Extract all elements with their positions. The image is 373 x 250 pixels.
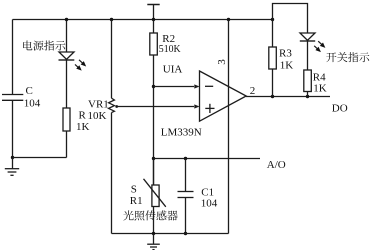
wire C1 bottom leg <box>185 198 187 234</box>
wire VR1 top leg <box>111 20 113 99</box>
node junction VR1 rail <box>110 18 113 21</box>
svg-text:2: 2 <box>250 85 256 97</box>
label power indicator <box>23 40 32 50</box>
wire right top loop <box>273 4 308 34</box>
node junction left ground <box>11 156 14 159</box>
svg-text:3: 3 <box>216 59 228 65</box>
label switch indicator <box>326 52 336 62</box>
wire left below C to ground node <box>12 101 14 158</box>
resistor R2 body <box>150 33 158 55</box>
wire bottom ground bus <box>112 233 229 235</box>
op-amp minus sign <box>205 85 213 87</box>
LED D2 switch indicator <box>300 33 315 41</box>
svg-text:C: C <box>26 85 33 97</box>
wire rail to R2 <box>153 20 155 34</box>
LED D1 power indicator <box>59 52 75 60</box>
node junction VCC rail <box>152 18 155 21</box>
wire rail to R3 <box>272 20 274 48</box>
node junction R3 output <box>271 95 274 98</box>
svg-text:LM339N: LM339N <box>161 127 202 139</box>
svg-text:104: 104 <box>24 98 41 110</box>
wire R top to LED1 <box>66 60 68 108</box>
op-amp U1A comparator triangle <box>200 71 247 121</box>
svg-text:VR1: VR1 <box>88 99 109 111</box>
svg-text:UIA: UIA <box>163 64 183 76</box>
wire R1 top leg <box>153 159 155 186</box>
wire LED1 top to rail <box>66 20 68 53</box>
wire left branch down to C <box>12 20 14 95</box>
pin arrow non-inverting input <box>194 104 199 108</box>
svg-text:S: S <box>131 184 137 196</box>
wire R3 to output <box>272 69 274 97</box>
LED D2 emission arrows <box>313 40 327 54</box>
potentiometer VR1 wiper dot <box>115 105 118 108</box>
wire pin3/pin12 vertical <box>228 20 230 234</box>
svg-text:1K: 1K <box>313 82 327 94</box>
wire VR1 bottom leg <box>111 113 113 234</box>
node junction pin3 rail <box>227 18 230 21</box>
resistor R4 body <box>304 70 312 92</box>
wire R bottom leg <box>66 131 68 158</box>
pin arrow inverting input <box>194 84 199 88</box>
node junction rail right end <box>271 18 274 21</box>
wire inverting input <box>154 86 195 88</box>
wire A/O line <box>154 158 261 160</box>
wire bottom-left horizontal <box>13 157 67 159</box>
svg-text:A/O: A/O <box>267 159 286 171</box>
svg-text:R: R <box>79 110 87 122</box>
LED D1 emission arrows <box>73 58 87 72</box>
resistor R3 body <box>269 47 277 69</box>
wire top VCC rail <box>13 19 273 21</box>
photoresistor R1 body <box>144 179 166 207</box>
svg-text:DO: DO <box>332 103 348 115</box>
svg-text:1K: 1K <box>280 59 294 71</box>
ground center <box>147 234 160 250</box>
wire R1 bottom leg <box>153 207 155 234</box>
node junction C1 top <box>184 157 187 160</box>
node junction minus input <box>152 85 155 88</box>
capacitor C1 plates <box>178 192 194 198</box>
svg-text:10K: 10K <box>88 110 107 122</box>
potentiometer VR1 zigzag <box>109 98 115 112</box>
wire LED2 to R4 <box>307 41 309 70</box>
node junction LED1 rail <box>65 18 68 21</box>
node junction A/O <box>152 157 155 160</box>
wire output DO <box>246 96 330 98</box>
node junction ground center <box>152 232 155 235</box>
resistor R body <box>63 108 70 131</box>
svg-text:510K: 510K <box>159 43 181 55</box>
op-amp plus sign <box>205 104 214 113</box>
svg-text:1K: 1K <box>76 121 90 133</box>
wire R2 bottom to A/O node <box>153 55 155 185</box>
power VCC symbol <box>147 5 159 20</box>
wire C1 top leg <box>185 159 187 192</box>
ground left <box>5 158 19 176</box>
label light sensor <box>123 210 133 220</box>
svg-text:104: 104 <box>201 198 218 210</box>
wire non-inverting input from wiper <box>117 106 194 108</box>
svg-text:R3: R3 <box>279 48 292 60</box>
node junction R4 output <box>306 95 309 98</box>
wire R4 to output <box>307 92 309 97</box>
svg-text:R1: R1 <box>130 195 143 207</box>
capacitor C plates <box>2 95 23 101</box>
node junction C1 bottom <box>184 232 187 235</box>
